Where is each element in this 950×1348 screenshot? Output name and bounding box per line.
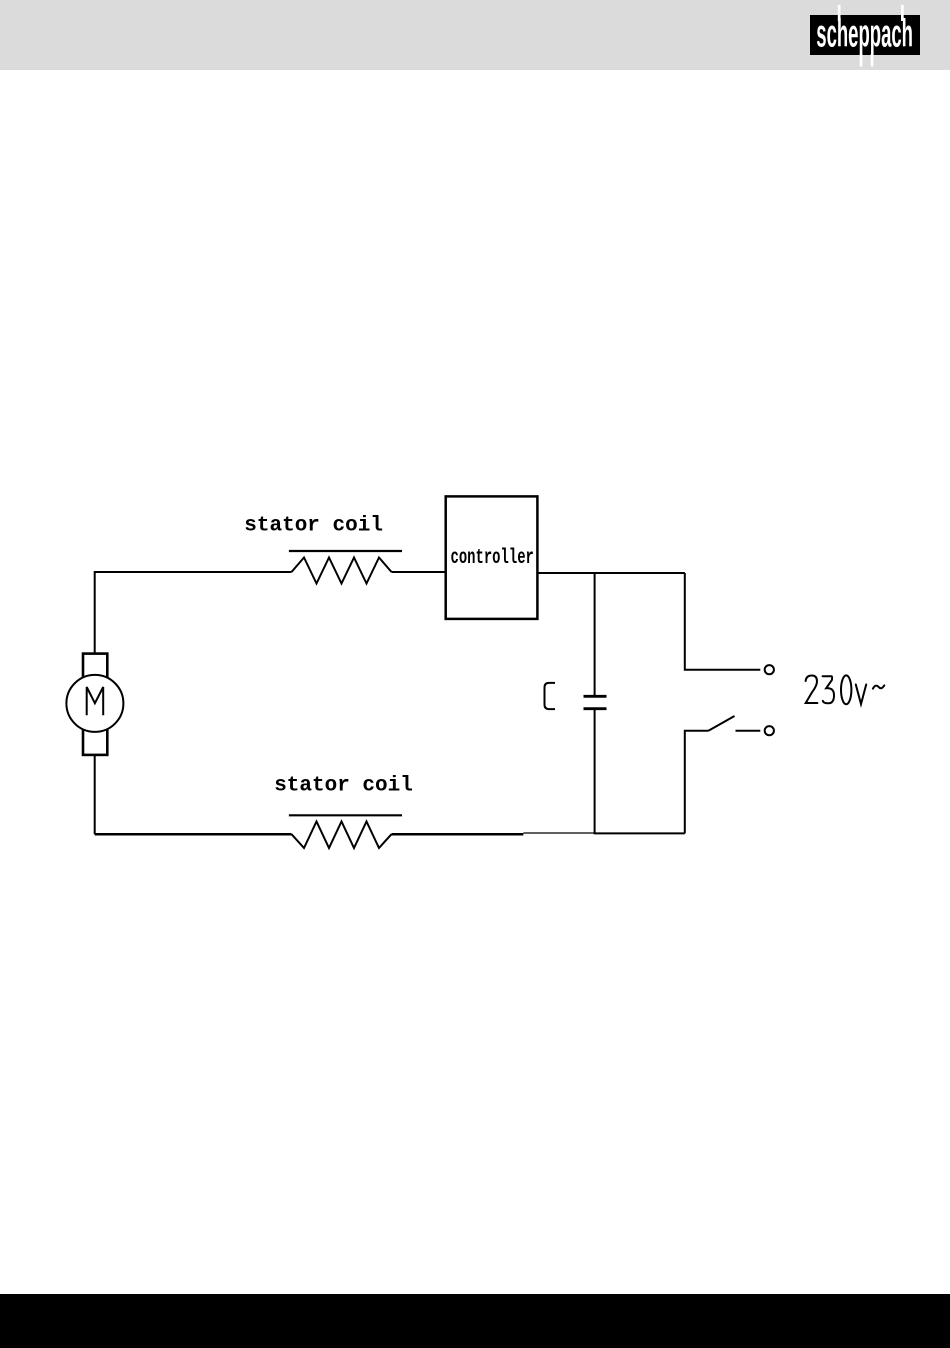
motor M1 rect — [83, 654, 107, 755]
svg-text:controller: controller — [451, 546, 534, 570]
wire: controller to right vertical — [537, 572, 684, 574]
capacitor C1 branch upper stem — [594, 573, 596, 695]
svg-text:stator coil: stator coil — [244, 515, 383, 538]
capacitor C1 plates — [584, 696, 607, 708]
resistor R bottom (stator coil) — [292, 822, 392, 849]
switch S1 blade — [708, 716, 734, 731]
scheppach logo — [810, 5, 920, 67]
wire: bottom left segment — [95, 833, 292, 836]
switch S1 fixed contact wire — [736, 730, 761, 732]
label 230v~ — [806, 675, 885, 704]
wire: bottom right vertical (to switch) — [685, 731, 709, 834]
wire: top-left (motor to top resistor) — [95, 572, 292, 654]
underline top stator coil — [289, 550, 402, 552]
header gray bar — [0, 0, 950, 70]
svg-text:scheppach: scheppach — [816, 13, 913, 55]
resistor R top (stator coil) — [292, 558, 392, 584]
motor M1: left vertical wires — [94, 755, 96, 834]
wire: top resistor to controller — [392, 571, 446, 573]
footer black bar — [0, 1294, 950, 1348]
motor M1 letter M — [87, 687, 104, 715]
wire: bottom right segment — [595, 832, 685, 834]
motor M1 circle — [66, 675, 123, 732]
wire: bottom thin segment — [523, 832, 595, 834]
terminal circle upper — [765, 665, 774, 674]
label C — [545, 683, 556, 709]
underline bottom stator coil — [289, 814, 402, 816]
svg-text:stator coil: stator coil — [274, 775, 413, 798]
capacitor C1 lower stem — [594, 710, 596, 834]
wire: right vertical to upper terminal — [685, 573, 761, 670]
controller box U1 — [446, 496, 538, 619]
wire: bottom middle segment — [392, 833, 524, 836]
terminal circle lower — [765, 726, 774, 735]
